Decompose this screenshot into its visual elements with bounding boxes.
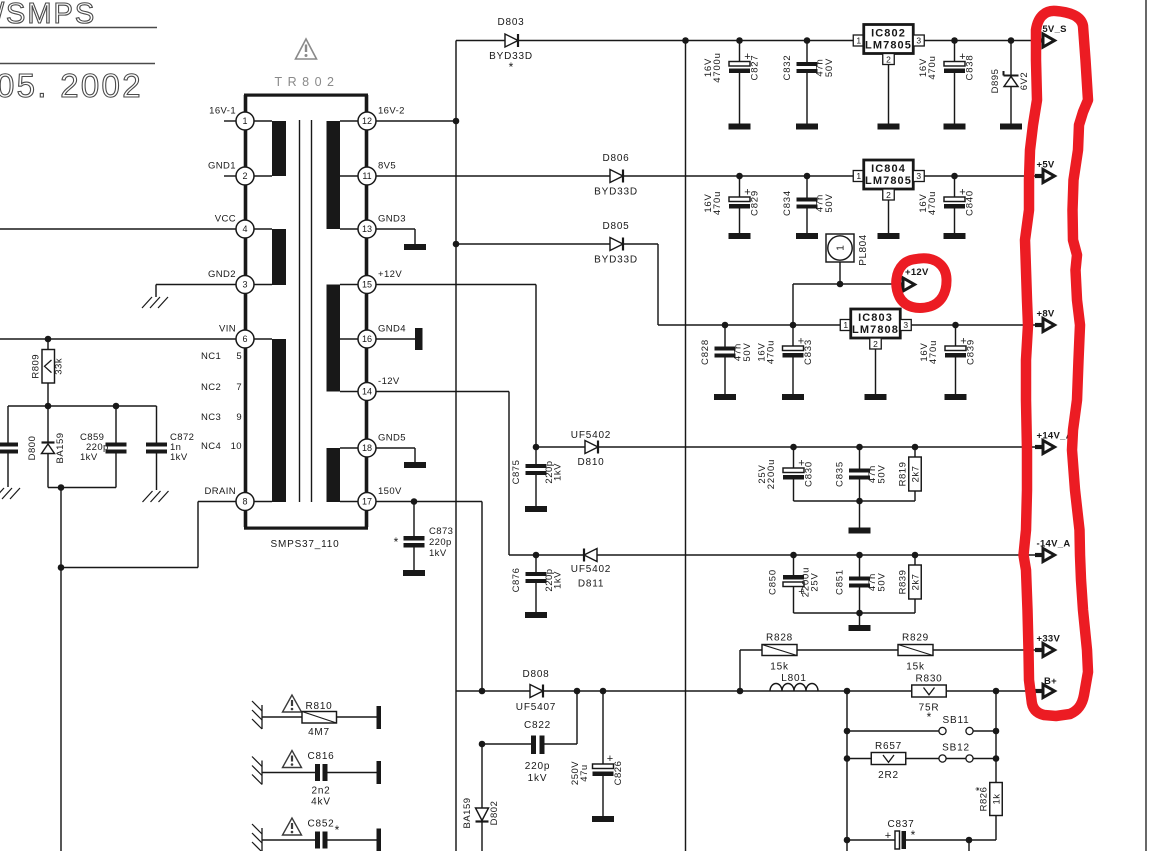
chassis plate bar C852 [377, 829, 382, 851]
wire VIN [0, 338, 236, 340]
red marker circle around +12V [896, 258, 946, 308]
svg-text:2n2: 2n2 [311, 786, 330, 797]
svg-text:R657: R657 [875, 741, 902, 752]
svg-text:C852: C852 [307, 819, 334, 830]
ground GND5 [404, 462, 426, 468]
svg-text:-14V_A: -14V_A [1037, 539, 1071, 550]
svg-text:1kV: 1kV [80, 452, 98, 463]
svg-text:50V: 50V [877, 572, 888, 591]
svg-text:8V5: 8V5 [378, 161, 396, 172]
capacitor C834 47n 50V [806, 176, 808, 198]
wire IC802 pin2 to ground [888, 65, 890, 124]
svg-text:GND1: GND1 [208, 161, 236, 172]
lamp PL804 [826, 234, 854, 262]
resistor R826 1k [995, 759, 997, 783]
svg-text:C829: C829 [750, 190, 761, 216]
wire row C [658, 324, 1036, 326]
svg-text:C833: C833 [803, 339, 814, 365]
resistor R810 4M7 [262, 716, 302, 718]
svg-text:TR802: TR802 [274, 75, 339, 89]
wire GND3 [376, 228, 416, 230]
svg-text:18: 18 [362, 443, 372, 453]
svg-text:+12V: +12V [905, 267, 929, 278]
wire row D [536, 446, 1036, 448]
node junctions row G [479, 688, 486, 695]
svg-text:470u: 470u [927, 191, 938, 215]
svg-text:C830: C830 [804, 461, 815, 487]
diode D810 UF5402 [585, 441, 598, 454]
diode D806 BYD33D [610, 170, 623, 183]
output arrow +33V [1035, 648, 1044, 652]
output arrow +5V_S [1035, 38, 1044, 42]
node junctions row B [736, 173, 743, 180]
output arrow +12V [895, 282, 904, 286]
svg-text:1kV: 1kV [528, 773, 548, 784]
svg-text:R830: R830 [915, 674, 942, 685]
capacitor C859 220p 1kV [115, 406, 117, 443]
svg-text:GND3: GND3 [378, 214, 406, 225]
svg-text:11: 11 [362, 171, 371, 181]
svg-text:VCC: VCC [215, 214, 236, 225]
diode D800 BA159 [47, 406, 49, 442]
zener D895 6V2 [1010, 41, 1012, 76]
regulator IC804 LM7805 [853, 171, 864, 182]
ground GND3 [404, 244, 426, 250]
output arrow +8V [1035, 323, 1044, 327]
svg-text:IC802: IC802 [871, 28, 906, 40]
resistor R819 2k7 [914, 447, 916, 457]
svg-text:2200u: 2200u [766, 459, 777, 489]
svg-text:LM7805: LM7805 [865, 175, 912, 187]
svg-text:15k: 15k [906, 662, 925, 673]
svg-text:D811: D811 [578, 579, 604, 590]
capacitor (left edge, partial) [7, 406, 9, 443]
svg-text:05. 2002: 05. 2002 [0, 67, 143, 104]
wire DRAIN pin8 [198, 501, 236, 503]
svg-text:4700u: 4700u [712, 52, 723, 82]
capacitor C822 220p 1kV [479, 741, 486, 748]
wire row D bottom tie [794, 500, 916, 502]
svg-text:13: 13 [362, 224, 372, 234]
svg-text:R809: R809 [31, 354, 42, 379]
wire IC803 pin2 to ground [875, 349, 877, 394]
svg-text:+8V: +8V [1037, 309, 1055, 320]
svg-text:2: 2 [873, 339, 878, 349]
svg-text:*: * [927, 710, 932, 724]
svg-text:/SMPS: /SMPS [0, 0, 96, 30]
chassis ground GND2 [142, 297, 152, 308]
svg-text:5: 5 [236, 351, 242, 362]
svg-text:9: 9 [236, 412, 242, 423]
svg-text:R828: R828 [766, 633, 793, 644]
transformer core [299, 120, 301, 502]
svg-text:SMPS37_110: SMPS37_110 [271, 539, 340, 550]
svg-text:GND2: GND2 [208, 269, 236, 280]
svg-text:16: 16 [362, 334, 372, 344]
svg-text:2: 2 [242, 171, 247, 181]
svg-text:NC4: NC4 [201, 441, 221, 452]
svg-text:1kV: 1kV [170, 452, 188, 463]
resistor R829 15k [898, 645, 933, 656]
node junctions row A [682, 37, 689, 44]
inductor L801 [770, 684, 818, 691]
wire snubber top node [8, 405, 157, 407]
svg-text:*: * [509, 60, 514, 74]
svg-text:16V-1: 16V-1 [209, 106, 236, 117]
svg-text:C839: C839 [966, 339, 977, 365]
svg-text:470u: 470u [766, 340, 777, 364]
svg-text:470u: 470u [712, 191, 723, 215]
svg-text:1: 1 [843, 320, 848, 330]
node D805 junction [453, 241, 460, 248]
wire 150V [376, 501, 483, 503]
wire GND4 [376, 338, 416, 340]
capacitor C839 470u 16V [955, 325, 957, 346]
solder bridge SB12 [939, 755, 946, 762]
svg-text:2: 2 [886, 190, 891, 200]
svg-text:50V: 50V [824, 58, 835, 77]
capacitor C816 2n2 4kV [262, 772, 315, 774]
wire 16V rail vertical [455, 41, 457, 851]
capacitor C851 47n 50V [859, 555, 861, 577]
wire PL804 to +12V line [839, 262, 841, 284]
chassis symbol C852 row [261, 828, 263, 851]
warning triangle above TR802 [296, 39, 317, 59]
title underline [0, 27, 157, 29]
svg-text:D800: D800 [27, 436, 38, 461]
chassis bar GND4 [415, 328, 423, 350]
node junctions row C [722, 322, 729, 329]
wire row E bottom tie [794, 612, 916, 614]
chassis symbol R810 row [261, 705, 263, 729]
svg-text:D808: D808 [522, 669, 549, 680]
svg-text:47u: 47u [579, 764, 590, 781]
svg-text:PL804: PL804 [858, 234, 869, 265]
svg-text:C832: C832 [782, 55, 793, 81]
svg-text:IC804: IC804 [871, 163, 906, 175]
svg-text:1: 1 [836, 245, 847, 251]
regulator IC802 LM7805 [853, 35, 864, 46]
chassis symbol C816 row [261, 761, 263, 785]
svg-text:R819: R819 [898, 462, 909, 487]
capacitor C826 47u 250V [602, 691, 604, 764]
svg-text:2k7: 2k7 [911, 466, 922, 483]
svg-text:1: 1 [242, 116, 247, 126]
svg-text:7: 7 [236, 382, 242, 393]
wire +12V tap [793, 283, 896, 285]
svg-text:3: 3 [916, 171, 921, 181]
output arrow +5V [1035, 174, 1044, 178]
svg-text:NC1: NC1 [201, 351, 221, 362]
svg-text:220p: 220p [429, 537, 452, 548]
output arrow B+ [1035, 689, 1044, 693]
svg-text:+: + [885, 830, 891, 842]
svg-text:R810: R810 [305, 701, 332, 712]
svg-text:R839: R839 [898, 570, 909, 595]
svg-text:470u: 470u [927, 55, 938, 79]
diode D802 BA159 [481, 744, 483, 808]
svg-text:C826: C826 [613, 761, 624, 786]
wire row A [456, 40, 1036, 42]
svg-text:2k7: 2k7 [911, 574, 922, 591]
transformer pin circles right [358, 112, 376, 130]
svg-text:C838: C838 [965, 55, 976, 81]
svg-text:NC3: NC3 [201, 412, 221, 423]
svg-text:+5V: +5V [1037, 160, 1055, 171]
svg-text:BA159: BA159 [55, 432, 66, 463]
svg-text:L801: L801 [781, 673, 806, 684]
svg-text:14: 14 [362, 387, 372, 397]
svg-text:NC2: NC2 [201, 382, 221, 393]
resistor R828 15k [762, 645, 797, 656]
svg-text:C875: C875 [511, 460, 522, 485]
transformer pin circles left [236, 112, 254, 130]
svg-text:C834: C834 [782, 190, 793, 216]
svg-text:D805: D805 [602, 221, 629, 232]
svg-text:15: 15 [362, 280, 372, 290]
svg-text:C828: C828 [700, 339, 711, 365]
svg-text:-12V: -12V [378, 376, 400, 387]
chassis ground C872 [143, 491, 153, 502]
svg-text:D802: D802 [489, 801, 500, 826]
svg-text:50V: 50V [877, 464, 888, 483]
svg-text:DRAIN: DRAIN [204, 486, 236, 497]
svg-text:25V: 25V [810, 572, 821, 591]
svg-text:3: 3 [242, 280, 247, 290]
svg-text:33k: 33k [54, 358, 65, 375]
svg-text:2: 2 [886, 55, 891, 65]
capacitor C850 2200u 25V [793, 555, 795, 575]
svg-text:17: 17 [362, 497, 372, 507]
svg-text:1kV: 1kV [429, 548, 447, 559]
svg-text:6V2: 6V2 [1019, 72, 1030, 90]
capacitor C837 [844, 837, 851, 844]
regulator IC803 LM7808 [840, 320, 851, 331]
svg-text:12: 12 [362, 116, 372, 126]
svg-text:B+: B+ [1044, 676, 1057, 687]
svg-text:1: 1 [856, 36, 861, 46]
node junctions row E [790, 552, 797, 559]
svg-text:4: 4 [242, 224, 247, 234]
wire drain node vertical [60, 488, 62, 851]
resistor R809 33k [47, 339, 49, 350]
node junctions row D [790, 444, 797, 451]
diode D811 UF5402 [583, 549, 585, 562]
svg-text:10: 10 [231, 441, 242, 452]
svg-text:C850: C850 [768, 569, 779, 595]
svg-text:15k: 15k [770, 662, 789, 673]
svg-text:3: 3 [903, 320, 908, 330]
svg-text:1kV: 1kV [553, 463, 564, 481]
svg-text:*: * [394, 535, 399, 549]
svg-text:150V: 150V [378, 486, 402, 497]
capacitor C875 220p 1kV [535, 447, 537, 464]
svg-text:2R2: 2R2 [878, 770, 899, 781]
diode D808 UF5407 [530, 685, 543, 698]
svg-text:1k: 1k [992, 793, 1003, 804]
capacitor C873 220p 1kV [413, 502, 415, 537]
chassis plate bar R810 [377, 706, 382, 729]
wire long vertical right of D803 junction [685, 41, 687, 851]
wire +33V row [739, 650, 741, 691]
chassis ground left [0, 488, 4, 499]
pin stub 16V-1 [224, 120, 236, 122]
warning triangle C852 [283, 818, 302, 835]
sheet border right [1145, 0, 1147, 851]
capacitor C872 1n 1kV [156, 406, 158, 443]
svg-text:LM7805: LM7805 [865, 40, 912, 52]
warning triangle R810 [283, 695, 302, 712]
svg-text:8: 8 [242, 497, 247, 507]
svg-text:R829: R829 [902, 633, 929, 644]
warning triangle C816 [283, 751, 302, 768]
wire row G B+ [456, 690, 1036, 692]
svg-text:D803: D803 [497, 17, 524, 28]
svg-text:4kV: 4kV [311, 797, 331, 808]
node VIN junction [45, 336, 52, 343]
output arrow -14V_A [1035, 553, 1044, 557]
svg-text:C851: C851 [835, 569, 846, 595]
svg-text:470u: 470u [928, 340, 939, 364]
pin stub GND1 [224, 175, 236, 177]
solder bridge SB11 [844, 728, 851, 735]
wire 150V down to D808 [481, 502, 483, 692]
wire GND2 to chassis [156, 284, 236, 286]
svg-text:GND5: GND5 [378, 433, 406, 444]
svg-text:C876: C876 [511, 568, 522, 593]
svg-text:C822: C822 [524, 720, 551, 731]
svg-text:3: 3 [916, 36, 921, 46]
svg-text:220p: 220p [525, 761, 550, 772]
capacitor C833 470u 16V [792, 325, 794, 346]
svg-text:UF5402: UF5402 [571, 564, 611, 575]
svg-text:C827: C827 [750, 55, 761, 81]
svg-text:GND4: GND4 [378, 324, 406, 335]
svg-text:1: 1 [856, 171, 861, 181]
svg-text:C840: C840 [965, 190, 976, 216]
resistor R657 2R2 [844, 755, 851, 762]
svg-text:IC803: IC803 [858, 312, 893, 324]
capacitor C830 2200u 25V [793, 447, 795, 468]
resistor R830 75R [912, 685, 947, 697]
transformer TR802 outline [244, 94, 368, 97]
wire VCC [0, 228, 236, 230]
output arrow +14V_A [1035, 445, 1044, 449]
svg-text:+12V: +12V [378, 269, 402, 280]
wire pin15 to D810 [376, 284, 536, 286]
svg-text:UF5402: UF5402 [571, 430, 611, 441]
resistor R839 2k7 [914, 555, 916, 565]
svg-text:1kV: 1kV [553, 571, 564, 589]
wire B+ branch down [846, 691, 848, 851]
capacitor C838 470u 16V [954, 41, 956, 62]
wire row E [536, 554, 1036, 556]
svg-text:16V-2: 16V-2 [378, 106, 405, 117]
capacitor C852 [262, 839, 315, 841]
svg-text:D810: D810 [577, 457, 604, 468]
svg-text:LM7808: LM7808 [852, 324, 899, 336]
capacitor C835 47n 50V [859, 447, 861, 469]
svg-text:D895: D895 [990, 69, 1001, 94]
svg-text:4M7: 4M7 [308, 727, 330, 738]
wire pin14 to D811 [376, 391, 509, 393]
svg-text:BYD33D: BYD33D [594, 255, 638, 266]
wire IC804 pin2 to ground [888, 200, 890, 233]
wire 16V-2 [376, 120, 456, 122]
diode D803 BYD33D [505, 34, 518, 47]
svg-text:+33V: +33V [1037, 634, 1061, 645]
red marker loop around output arrows [1024, 11, 1089, 716]
svg-text:VIN: VIN [219, 324, 236, 335]
svg-text:*: * [335, 823, 340, 837]
capacitor C827 4700u 16V [739, 41, 741, 62]
svg-text:BYD33D: BYD33D [594, 187, 638, 198]
svg-text:*: * [974, 786, 986, 791]
capacitor C832 47n 50V [806, 41, 808, 63]
chassis plate bar C816 [377, 761, 382, 784]
capacitor C829 470u 16V [739, 176, 741, 197]
svg-text:6: 6 [242, 334, 247, 344]
svg-text:C816: C816 [307, 751, 334, 762]
wire D805 to row C [657, 244, 659, 325]
wire GND5 [376, 447, 416, 449]
svg-text:C873: C873 [429, 526, 453, 537]
transformer windings [272, 121, 286, 176]
svg-text:SB11: SB11 [943, 715, 970, 726]
svg-text:50V: 50V [742, 342, 753, 361]
title separator line [0, 63, 155, 65]
svg-text:*: * [911, 828, 916, 842]
svg-text:50V: 50V [824, 193, 835, 212]
capacitor C828 47n 50V [724, 325, 726, 347]
svg-text:BA159: BA159 [462, 797, 473, 828]
svg-text:UF5407: UF5407 [516, 702, 556, 713]
svg-text:SB12: SB12 [942, 743, 970, 754]
diode D805 BYD33D [456, 243, 658, 245]
wire snubber bottom node [48, 487, 116, 489]
capacitor C840 470u 16V [954, 176, 956, 197]
capacitor C876 220p 1kV [535, 555, 537, 572]
wire row B 8V5 [376, 175, 1036, 177]
svg-text:D806: D806 [602, 153, 629, 164]
svg-text:C835: C835 [835, 461, 846, 487]
